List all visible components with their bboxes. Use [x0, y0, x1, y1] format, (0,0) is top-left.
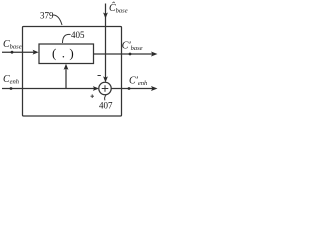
minus sign at adder top input	[98, 75, 101, 77]
arrowhead C_enh into adder	[93, 86, 99, 91]
svg-text:(.): (.)	[52, 45, 74, 60]
svg-text:405: 405	[71, 30, 85, 40]
wire C_base input	[2, 51, 37, 53]
arrowhead C'_base output	[151, 52, 158, 57]
arrowhead branch into 405 bottom	[64, 64, 69, 70]
leader line 405	[63, 34, 71, 43]
leader line 407	[105, 95, 106, 100]
arrowhead C_base into 405	[33, 50, 39, 55]
wire C'_enh output	[111, 88, 155, 90]
inner block 405	[39, 44, 94, 64]
arrowhead C'_enh output	[151, 86, 158, 91]
svg-text:407: 407	[99, 100, 113, 110]
junction dot C_enh	[10, 87, 13, 90]
plus sign at adder left input	[91, 94, 95, 98]
leader line 379	[53, 15, 63, 25]
wire C_enh input	[2, 88, 98, 90]
plus sign inside adder	[102, 85, 109, 92]
wire C'_base output	[94, 53, 156, 55]
junction dot C'_base	[129, 53, 132, 56]
wire branch C_enh to block 405	[65, 68, 67, 89]
adder 407	[99, 82, 111, 94]
arrowhead Chat_base upper	[103, 13, 108, 19]
junction dot C'_enh	[128, 87, 131, 90]
outer block 379	[23, 27, 122, 117]
wire Chat_base vertical	[105, 4, 107, 79]
svg-text:379: 379	[40, 11, 54, 21]
arrowhead Chat_base into adder	[103, 76, 108, 82]
junction dot C_base	[11, 51, 14, 54]
